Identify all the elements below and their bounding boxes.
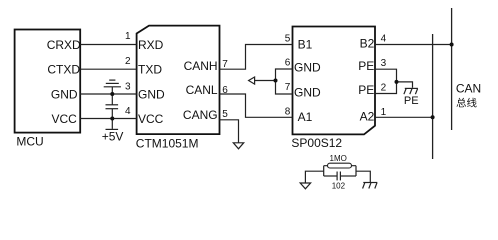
- svg-text:TXD: TXD: [138, 63, 162, 77]
- CANH bus vertical: [451, 8, 453, 130]
- svg-text:PE: PE: [358, 83, 374, 97]
- ground G2 (open triangle at CANG): [233, 143, 243, 149]
- svg-text:A2: A2: [360, 109, 375, 123]
- wire CANG: [220, 120, 239, 143]
- ground G1 (inverted earth above GND wire): [104, 80, 121, 94]
- wire CRXD-RXD: [80, 44, 136, 46]
- svg-text:1: 1: [381, 107, 387, 118]
- arrow head (open, pointing left): [249, 77, 255, 84]
- svg-text:1: 1: [125, 31, 131, 42]
- junction PE bracket: [395, 80, 399, 84]
- svg-text:CAN: CAN: [456, 82, 481, 96]
- svg-text:4: 4: [381, 34, 387, 45]
- RC parallel loop left bar: [323, 166, 325, 176]
- svg-text:A1: A1: [298, 110, 313, 124]
- svg-text:+5V: +5V: [102, 129, 124, 143]
- wire GND-GND: [80, 93, 136, 95]
- capacitor C1: [106, 94, 119, 119]
- chassis ground symbol (bottom right): [363, 183, 378, 189]
- svg-text:CTM1051M: CTM1051M: [136, 136, 199, 150]
- svg-text:GND: GND: [294, 61, 321, 75]
- CANL bus vertical: [432, 34, 434, 159]
- wire CTXD-TXD: [80, 68, 136, 70]
- wire B2 to CANH bus: [375, 44, 452, 46]
- svg-text:GND: GND: [138, 87, 165, 101]
- svg-text:3: 3: [381, 58, 387, 69]
- chassis ground PE symbol: [404, 88, 418, 94]
- junction A2 on CANL bus: [431, 115, 435, 119]
- wire CANL to A1: [220, 94, 293, 117]
- svg-text:SP00S12: SP00S12: [291, 136, 342, 150]
- svg-text:5: 5: [285, 33, 291, 44]
- junction on GND wire: [110, 92, 114, 96]
- svg-text:CANL: CANL: [186, 83, 218, 97]
- RC loop right bar: [355, 166, 357, 176]
- label 总线 (CAN bus, drawn as glyph paths): [457, 98, 477, 108]
- wire PE branch: [397, 82, 413, 88]
- svg-text:B1: B1: [298, 37, 313, 51]
- svg-text:PE: PE: [358, 59, 374, 73]
- junction B2 on CANH bus: [450, 43, 454, 47]
- wire SP GND bracket pins 6-7: [276, 69, 293, 94]
- svg-text:MCU: MCU: [16, 135, 43, 149]
- svg-text:VCC: VCC: [138, 112, 164, 126]
- junction SP GND bracket: [274, 79, 278, 83]
- svg-text:B2: B2: [360, 36, 375, 50]
- junction on VCC wire: [110, 117, 114, 121]
- wire to chassis ground (right): [356, 171, 370, 182]
- svg-text:7: 7: [285, 82, 291, 93]
- svg-text:3: 3: [125, 81, 131, 92]
- svg-text:VCC: VCC: [52, 112, 78, 126]
- svg-text:2: 2: [125, 56, 131, 67]
- wire arrow to floating ground: [255, 80, 276, 82]
- svg-text:1MO: 1MO: [330, 154, 347, 163]
- svg-text:5: 5: [222, 109, 228, 120]
- svg-text:2: 2: [381, 82, 387, 93]
- svg-text:7: 7: [222, 59, 228, 70]
- wire A2 to CANL bus: [375, 116, 433, 118]
- svg-text:6: 6: [285, 58, 291, 69]
- svg-text:CANG: CANG: [183, 108, 218, 122]
- capacitor C2 plates: [336, 172, 338, 181]
- SP00S12 U3 box (chamfered bottom-right): [293, 27, 376, 135]
- svg-text:PE: PE: [404, 95, 419, 107]
- resistor R1 1M body: [328, 163, 352, 168]
- wire CANH to B1: [220, 45, 293, 70]
- wire PE bracket pins 3-2: [375, 69, 397, 93]
- svg-text:8: 8: [285, 107, 291, 118]
- wire to ground of RC network (left): [305, 171, 323, 183]
- svg-text:CTXD: CTXD: [47, 63, 80, 77]
- MCU U1 box: [15, 30, 81, 133]
- wire VCC-VCC: [80, 118, 136, 120]
- svg-text:4: 4: [125, 106, 131, 117]
- svg-text:RXD: RXD: [138, 38, 164, 52]
- svg-text:CRXD: CRXD: [47, 38, 81, 52]
- RC top wire: [324, 165, 356, 167]
- svg-text:GND: GND: [294, 86, 321, 100]
- ground G3 (open triangle): [300, 183, 310, 189]
- power +5V symbol: [106, 119, 119, 130]
- svg-text:102: 102: [332, 182, 346, 191]
- RC bottom wire: [324, 175, 337, 177]
- svg-text:6: 6: [222, 85, 228, 96]
- CTM1051M U2 box (chamfered top-left): [137, 26, 220, 135]
- svg-text:GND: GND: [51, 87, 78, 101]
- svg-text:CANH: CANH: [184, 59, 218, 73]
